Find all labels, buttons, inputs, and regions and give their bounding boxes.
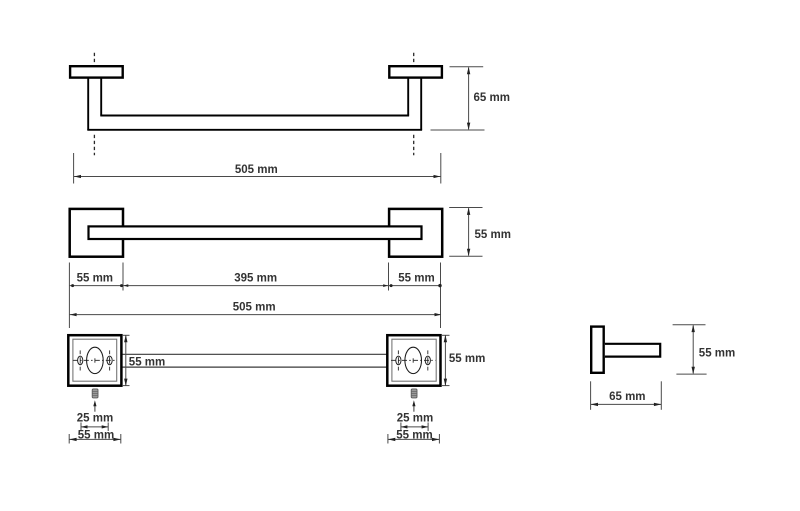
dimension 25 mm line (right) — [401, 423, 428, 432]
svg-text:65 mm: 65 mm — [609, 391, 645, 403]
dimension 55 mm (right plate height) — [442, 335, 485, 386]
text 55 mm (left bottom) — [78, 430, 114, 442]
bar (plan view) — [121, 354, 387, 367]
right plate centerlines — [391, 350, 435, 370]
left plate center hole (oval) — [87, 347, 104, 373]
dimension 505 mm (view 2) — [69, 302, 441, 317]
centerline right post — [413, 53, 415, 155]
svg-text:395 mm: 395 mm — [234, 272, 277, 284]
svg-text:65 mm: 65 mm — [474, 92, 510, 104]
dimension 55 mm (view 4) — [673, 325, 736, 374]
dimension 55 mm line (left bottom) — [69, 434, 121, 444]
right screw (below plate) — [411, 389, 417, 398]
left post — [88, 78, 101, 130]
right plate outer square (plan) — [387, 335, 440, 386]
dimension 25 mm line (left) — [81, 423, 108, 432]
left plate outer square (plan) — [68, 335, 121, 386]
dimension 65 mm (view 1) — [431, 67, 510, 130]
left end square (front view) — [70, 209, 123, 257]
right plate screw slot left — [396, 356, 401, 365]
bar (front view) — [89, 226, 422, 239]
text 25 mm (left) — [77, 412, 113, 424]
right screw pointer arrow — [412, 400, 415, 412]
left screw (below plate) — [92, 389, 98, 398]
svg-text:505 mm: 505 mm — [235, 164, 278, 176]
bar (side view) — [87, 116, 422, 130]
right plate inner square — [392, 339, 436, 381]
svg-text:55 mm: 55 mm — [77, 272, 113, 284]
left screw pointer arrow — [93, 400, 96, 412]
dimension 65 mm (view 4) — [591, 381, 662, 410]
text 25 mm (right) — [397, 412, 433, 424]
svg-text:55 mm: 55 mm — [449, 353, 485, 365]
right plate screw slot right — [425, 356, 430, 365]
left plate screw slot right — [107, 356, 112, 365]
arm (end view) — [605, 344, 660, 357]
svg-text:55 mm: 55 mm — [398, 272, 434, 284]
left wall flange (side view) — [70, 66, 123, 77]
svg-text:55 mm: 55 mm — [475, 229, 511, 241]
dimension 55 mm (left plate height) — [123, 335, 165, 386]
dimension row 55 / 395 / 55 (view 2) — [69, 263, 441, 329]
left plate centerlines — [73, 350, 117, 370]
dimension 505 mm (view 1) — [74, 153, 441, 184]
wall plate (end view) — [591, 327, 604, 373]
right post — [408, 78, 421, 130]
right plate center hole (oval) — [405, 347, 422, 373]
right wall flange (side view) — [389, 66, 442, 77]
svg-text:55 mm: 55 mm — [129, 356, 165, 368]
right end square (front view) — [389, 209, 442, 257]
dimension 55 mm (view 2 right) — [449, 208, 511, 257]
svg-text:505 mm: 505 mm — [233, 302, 276, 314]
left plate screw slot left — [78, 356, 83, 365]
svg-text:55 mm: 55 mm — [699, 347, 735, 359]
text 55 mm (right bottom) — [396, 430, 432, 442]
dimension 55 mm line (right bottom) — [388, 434, 440, 444]
left plate inner square — [73, 339, 117, 381]
centerline left post — [93, 53, 95, 155]
